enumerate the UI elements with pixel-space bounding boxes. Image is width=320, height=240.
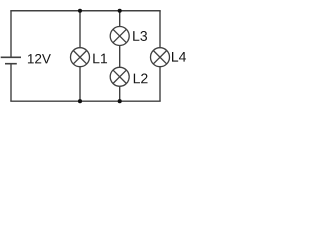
- battery value label 12V: [28, 54, 51, 63]
- lamp L3: [110, 27, 129, 46]
- wire branch middle upper (to L3): [119, 11, 121, 27]
- wire left upper (to battery): [10, 11, 12, 58]
- battery 12V long plate: [1, 56, 21, 58]
- wire top: [10, 10, 160, 12]
- junction node top-right: [118, 9, 122, 13]
- label L1: [93, 54, 107, 64]
- wire right upper (to L4): [159, 11, 161, 48]
- wire branch middle lower (below L2): [119, 86, 121, 101]
- junction node top-left: [78, 9, 82, 13]
- battery 12V short plate: [5, 63, 17, 65]
- wire branch L1 upper: [79, 11, 81, 48]
- wire left lower (from battery): [10, 64, 12, 101]
- junction node bottom-right: [118, 99, 122, 103]
- wire between L3 and L2: [119, 45, 121, 67]
- wire bottom: [10, 100, 160, 102]
- lamp L2: [110, 67, 129, 86]
- lamp L1: [71, 48, 90, 67]
- wire branch L1 lower: [79, 67, 81, 102]
- wire right lower (from L4): [159, 67, 161, 102]
- label L4: [172, 52, 186, 62]
- label L3: [133, 31, 147, 41]
- label L2: [134, 74, 148, 84]
- junction node bottom-left: [78, 99, 82, 103]
- lamp L4: [151, 48, 170, 67]
